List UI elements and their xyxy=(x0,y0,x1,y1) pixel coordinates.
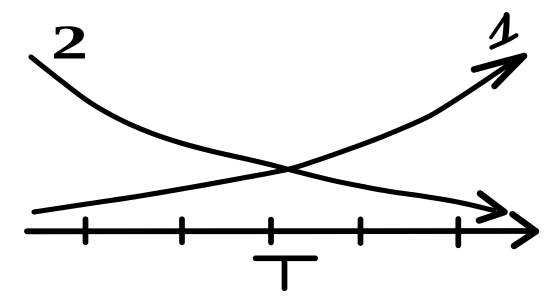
tick 5 xyxy=(455,219,461,245)
label T: vertical stem xyxy=(282,260,288,289)
curve 2 arrowhead xyxy=(479,194,505,221)
tick 3 xyxy=(268,220,274,243)
curve 2 (descending) xyxy=(31,57,494,211)
axis line xyxy=(27,228,534,234)
label 1 xyxy=(491,15,516,48)
curve 1 (ascending) xyxy=(34,57,522,213)
label T: horizontal bar xyxy=(256,255,316,261)
svg-text:2: 2 xyxy=(51,15,88,69)
curve 1 arrowhead: upper barb xyxy=(474,56,524,70)
tick 1 xyxy=(83,219,89,242)
curve 1 arrowhead: lower barb xyxy=(495,56,525,86)
tick 2 xyxy=(179,219,185,242)
tick 4 xyxy=(358,219,364,243)
axis arrowhead xyxy=(513,214,537,246)
